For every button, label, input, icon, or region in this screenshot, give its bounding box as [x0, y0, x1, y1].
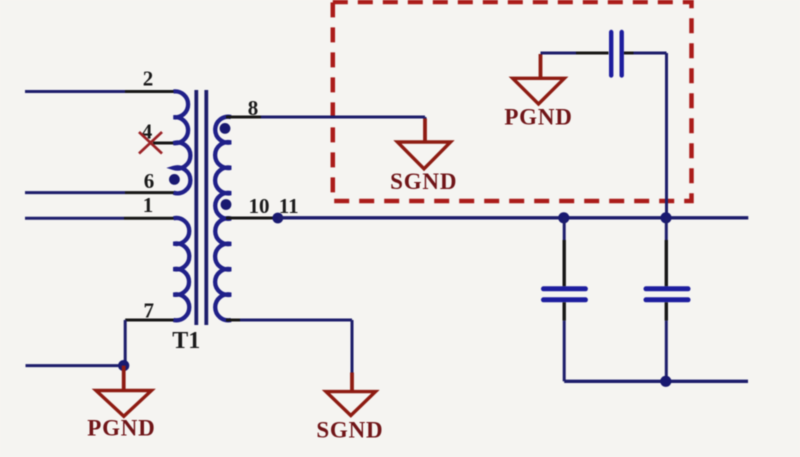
polarity dot pin 10: [221, 199, 232, 210]
wire pin2 lead: [25, 90, 176, 93]
transformer T1 secondary winding (pins 8-10/11-bottom): [215, 117, 231, 321]
wire pin7 stub: [125, 319, 176, 322]
svg-text:SGND: SGND: [390, 169, 457, 194]
wire output bus: [278, 216, 749, 219]
svg-text:6: 6: [144, 169, 155, 193]
capacitor output C-right branch: [665, 217, 668, 286]
junction dot bottom rail: [660, 376, 671, 387]
svg-text:1: 1: [143, 193, 154, 217]
junction dot at pin 10/11: [272, 213, 283, 224]
svg-text:SGND: SGND: [316, 418, 383, 443]
transformer T1 primary lower winding (pins 1-7): [174, 218, 190, 320]
wire cap to corner: [624, 52, 667, 55]
capacitor Y-cap (top): [611, 32, 622, 76]
junction dot at PGND: [118, 360, 129, 371]
wire pin6 lead: [25, 191, 176, 194]
ground PGND (bottom left): [96, 391, 152, 417]
transformer T1 primary upper winding (pins 2-4-6): [174, 91, 191, 193]
capacitor output C-right lower lead: [665, 302, 668, 381]
capacitor output C-left branch: [563, 217, 566, 286]
wire bottom rail: [564, 380, 748, 383]
wire vertical down to bus: [665, 53, 668, 218]
transformer T1 core: [196, 90, 206, 325]
junction dot bus right: [660, 212, 671, 223]
wire pin4 stub: [153, 142, 176, 145]
dashed isolation box: [333, 2, 692, 201]
wire pin8 lead: [226, 117, 425, 142]
junction dot bus left: [558, 212, 569, 223]
polarity dot pin 8: [220, 123, 231, 134]
ground SGND (inside box): [397, 142, 450, 169]
svg-text:8: 8: [248, 96, 259, 120]
capacitor output C-left lower lead: [563, 302, 566, 381]
wire secondary bottom to SGND: [226, 320, 352, 392]
no-connect X mark: [139, 132, 162, 154]
wire pin1 lead: [25, 217, 176, 220]
wire pin10/11 stub: [226, 217, 278, 220]
svg-text:10: 10: [249, 194, 270, 218]
ground SGND (bottom middle): [326, 392, 376, 416]
svg-text:7: 7: [143, 298, 154, 322]
wire stub into PGND symbol: [122, 366, 126, 391]
wire PGND up to cap: [541, 53, 609, 78]
svg-text:T1: T1: [172, 328, 200, 354]
ground PGND (inside box): [513, 78, 565, 104]
svg-text:PGND: PGND: [504, 104, 572, 129]
svg-text:2: 2: [143, 67, 154, 91]
svg-text:PGND: PGND: [87, 416, 155, 441]
capacitor output C-left plates: [544, 289, 586, 300]
capacitor output C-right plates: [646, 289, 688, 300]
wire PGND feed from left: [26, 364, 126, 367]
polarity dot pin 6: [169, 174, 180, 185]
wire pin7 down to PGND junction: [124, 320, 127, 366]
